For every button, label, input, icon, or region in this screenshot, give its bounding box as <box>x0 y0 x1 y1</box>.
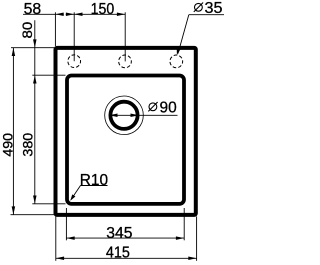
label d90 <box>148 102 157 111</box>
drain thick ring d90 <box>110 102 137 129</box>
extension line top edge (left) <box>11 47 54 49</box>
bottom 345 dimension <box>66 237 184 239</box>
arrow 380 bottom (pointing down at bowl bottom) <box>33 196 37 204</box>
bottom 415 dimension <box>56 257 197 259</box>
faucet hole 1 (dashed circle d35) <box>68 55 81 68</box>
extension line hole 2 center <box>124 12 126 61</box>
svg-text:490: 490 <box>0 133 16 157</box>
svg-text:35: 35 <box>205 0 223 17</box>
d35 leader: horizontal underline then diagonal to hole 3 <box>189 14 224 16</box>
arrow 80 top (outside, pointing down at top edge) <box>33 39 37 47</box>
arrows dim 150 <box>74 13 82 16</box>
d90 leader line with inner arrows <box>109 114 177 116</box>
extension line outer bottom (left) <box>11 214 55 216</box>
bowl inner rounded rectangle 345x380 R10 <box>67 76 184 204</box>
svg-text:90: 90 <box>160 99 177 116</box>
svg-text:345: 345 <box>106 225 132 242</box>
arrow 80 bottom / 380 top (pointing up at bowl top) <box>33 75 37 83</box>
svg-text:150: 150 <box>91 1 115 18</box>
left 490 dimension line <box>12 48 14 215</box>
extension line hole 1 center <box>73 12 75 61</box>
sink installation drawing, top view with dimensions <box>0 0 224 265</box>
drain recess thin circle <box>105 96 144 135</box>
svg-text:58: 58 <box>24 1 42 18</box>
left 80/380 dimension line <box>34 20 36 204</box>
svg-text:415: 415 <box>106 244 130 261</box>
extension line bowl top (left) <box>32 74 65 76</box>
svg-text:380: 380 <box>19 133 35 157</box>
faucet hole 2 (dashed circle d35) <box>119 55 132 68</box>
top dimension line (58 / 150) <box>23 13 64 15</box>
svg-text:80: 80 <box>19 21 35 38</box>
sink outer rectangle 415x490 <box>56 48 196 215</box>
extension line sink left edge <box>54 12 56 46</box>
extension line bowl bottom (left) <box>32 203 65 205</box>
label d35 <box>194 3 203 12</box>
arrows dim 58 <box>55 13 63 16</box>
svg-text:R10: R10 <box>80 172 108 189</box>
faucet hole 3 (dashed circle d35) <box>170 55 183 68</box>
R10 leader underline and diagonal with arrow to bowl corner <box>81 185 108 187</box>
